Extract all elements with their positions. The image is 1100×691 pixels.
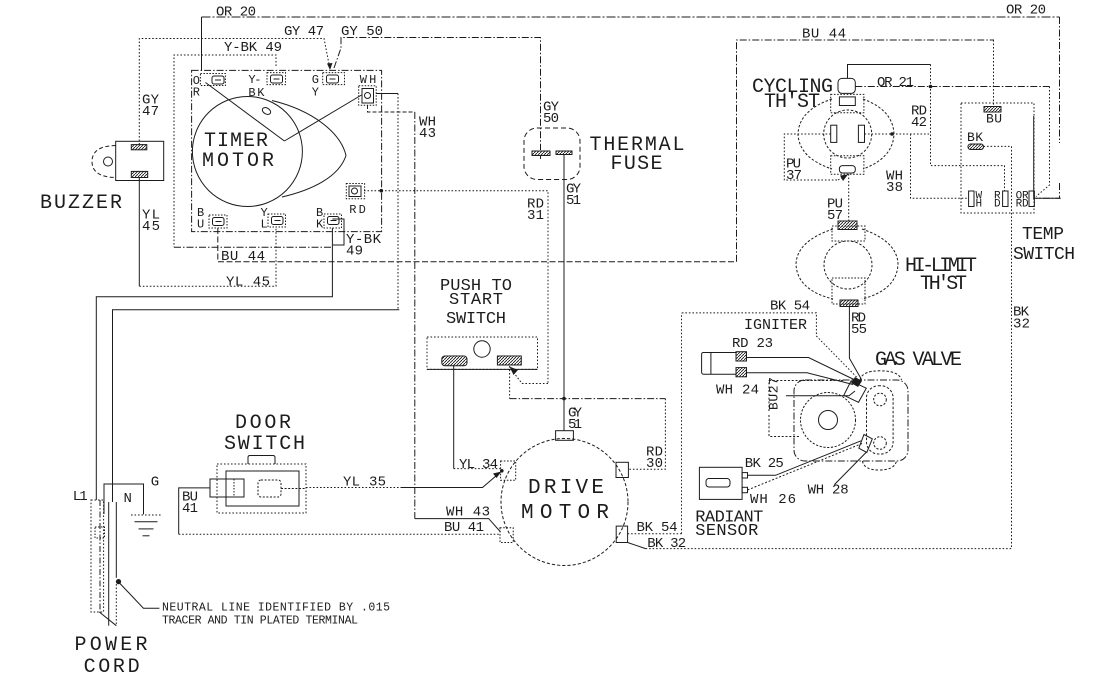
- gas valve bottom dome: [862, 461, 896, 470]
- hi-limit top collar: [832, 226, 865, 241]
- igniter plug: [702, 353, 736, 375]
- svg-text:L1: L1: [73, 489, 88, 505]
- radiant sensor pin BK25: [742, 473, 747, 478]
- svg-text:OR 20: OR 20: [1006, 3, 1046, 19]
- temp switch RD slot: [1003, 191, 1008, 207]
- svg-text:N: N: [124, 491, 132, 507]
- hi-limit body circle: [824, 241, 872, 289]
- svg-text:38: 38: [886, 180, 903, 196]
- buzzer body: [92, 141, 164, 180]
- svg-text:BU 41: BU 41: [444, 520, 484, 536]
- buzzer top terminal: [131, 145, 147, 150]
- svg-text:BK: BK: [248, 86, 265, 100]
- svg-text:BK 54: BK 54: [637, 520, 678, 536]
- svg-text:H: H: [976, 199, 983, 211]
- wire RD 31: [364, 189, 548, 384]
- timer cam follower bead: [261, 106, 272, 116]
- svg-text:WH 28: WH 28: [808, 483, 849, 499]
- svg-text:RD 23: RD 23: [732, 336, 773, 352]
- push to start switch box: [427, 337, 538, 369]
- svg-text:OR 20: OR 20: [216, 5, 256, 21]
- cycling thermostat right slot: [858, 125, 864, 142]
- timer motor circle: [192, 97, 302, 207]
- terminal timer Y-BK: [267, 73, 286, 85]
- timer wiper from WH: [284, 95, 361, 141]
- wire WH 26: [748, 444, 863, 491]
- cycling thermostat left petal: [798, 99, 832, 169]
- wire RD 42: [848, 65, 1005, 192]
- terminal timer YL: [268, 214, 286, 227]
- terminal timer BU: [209, 215, 227, 228]
- svg-text:WH 26: WH 26: [750, 492, 796, 508]
- timer wiper from OR: [206, 83, 285, 142]
- terminal timer RD: [346, 184, 364, 199]
- svg-text:41: 41: [182, 501, 198, 517]
- wire N to timer WH: [113, 310, 400, 502]
- svg-text:32: 32: [1013, 317, 1030, 333]
- push to start button: [474, 341, 490, 357]
- svg-text:BK 32: BK 32: [647, 536, 686, 552]
- svg-text:BU 44: BU 44: [802, 27, 846, 43]
- terminal timer BK: [324, 214, 342, 228]
- gas valve plate bottom hole: [874, 437, 887, 450]
- svg-text:Y-BK 49: Y-BK 49: [224, 40, 282, 56]
- cycling thermostat body circle: [824, 110, 872, 158]
- temp switch inner vertical: [1033, 116, 1035, 200]
- wire BK 25: [748, 441, 862, 476]
- svg-text:BK: BK: [967, 130, 983, 145]
- wire OR20 into OR-RD slot: [1034, 197, 1060, 199]
- wire GY 50: [334, 38, 541, 151]
- svg-text:Y-: Y-: [248, 73, 261, 87]
- wire WH 28: [834, 453, 866, 485]
- power cord L1 blade: [91, 500, 104, 612]
- gas valve outer body: [794, 380, 908, 461]
- wire BU 41: [179, 488, 499, 534]
- svg-text:L: L: [261, 218, 268, 232]
- door switch left plug: [210, 479, 244, 497]
- svg-text:K: K: [316, 218, 324, 232]
- svg-text:TH'ST: TH'ST: [764, 91, 820, 114]
- gas valve top dome: [860, 371, 902, 380]
- svg-text:GY 47: GY 47: [284, 24, 324, 40]
- wire BK 54 igniter run: [682, 313, 858, 379]
- gas valve upper coil terminal: [844, 381, 867, 402]
- motor right terminal RD30: [616, 462, 628, 477]
- svg-text:D: D: [994, 199, 1001, 211]
- svg-text:WH 24: WH 24: [716, 383, 759, 399]
- igniter pin WH24: [736, 368, 747, 377]
- wire BU 27 loop: [769, 381, 855, 437]
- note pointer line: [120, 583, 160, 608]
- tin plated terminal mark: [95, 527, 105, 538]
- cycling thermostat top cap: [838, 78, 855, 93]
- door switch outer box: [217, 464, 306, 513]
- svg-text:37: 37: [786, 168, 802, 184]
- push to start right contact: [497, 356, 521, 365]
- wire BK 32 vertical: [1011, 146, 1013, 548]
- hi-limit top cap: [838, 221, 857, 230]
- wire RD 23: [747, 358, 857, 381]
- svg-text:YL 35: YL 35: [343, 475, 386, 491]
- svg-text:TRACER AND TIN PLATED TERMINAL: TRACER AND TIN PLATED TERMINAL: [162, 615, 358, 628]
- svg-text:SENSOR: SENSOR: [695, 522, 758, 541]
- cycling thermostat bottom bar: [839, 166, 855, 173]
- gas valve junction blob: [851, 377, 862, 387]
- radiant sensor body: [699, 467, 742, 499]
- wire BK 32: [628, 543, 1012, 549]
- wire PU 37: [784, 134, 848, 181]
- svg-text:BU: BU: [986, 112, 1002, 127]
- svg-text:R: R: [193, 86, 200, 100]
- svg-text:MOTOR: MOTOR: [202, 150, 274, 173]
- temp switch BK terminal: [968, 144, 1012, 150]
- svg-text:BK 54: BK 54: [770, 299, 810, 315]
- power cord N blade: [99, 502, 116, 626]
- wire PU 57: [848, 174, 850, 222]
- drive motor circle: [501, 439, 628, 566]
- hi-limit right petal: [862, 229, 898, 299]
- wire BU 44: [218, 40, 994, 262]
- terminal timer OR: [200, 74, 225, 86]
- svg-text:50: 50: [543, 111, 559, 127]
- svg-text:49: 49: [346, 244, 363, 260]
- wire cycling right to WH38: [865, 132, 968, 198]
- svg-text:51: 51: [566, 193, 581, 209]
- svg-text:NEUTRAL LINE IDENTIFIED BY .01: NEUTRAL LINE IDENTIFIED BY .015: [162, 602, 390, 615]
- wire Y-BK 49 upper: [174, 55, 276, 247]
- terminal timer G-Y: [323, 73, 345, 85]
- cycling thermostat bottom collar: [831, 156, 864, 174]
- svg-text:IGNITER: IGNITER: [744, 317, 807, 334]
- radiant sensor pin WH26: [742, 487, 747, 492]
- wire L1 to timer BK: [96, 228, 332, 500]
- svg-text:30: 30: [646, 456, 663, 472]
- hi-limit bottom cap: [840, 300, 858, 307]
- svg-text:TEMP: TEMP: [1022, 225, 1064, 245]
- temp switch BU terminal: [984, 107, 1001, 113]
- svg-text:SWITCH: SWITCH: [1013, 245, 1075, 265]
- svg-text:YL 45: YL 45: [226, 275, 270, 291]
- cycling thermostat left slot: [831, 125, 837, 142]
- thermal fuse body: [524, 128, 580, 180]
- cycling thermostat top collar: [831, 94, 864, 112]
- wire Y-BK 49 lower run: [174, 219, 344, 247]
- svg-text:START: START: [449, 291, 503, 310]
- svg-text:43: 43: [419, 126, 436, 142]
- wire WH 43 into motor: [415, 519, 501, 532]
- svg-text:45: 45: [142, 219, 160, 235]
- timer cam lobe: [272, 101, 346, 198]
- gas valve coil circle: [801, 393, 856, 448]
- door switch top tab: [248, 456, 275, 465]
- hi-limit bottom collar: [832, 278, 865, 304]
- svg-text:BU 44: BU 44: [221, 249, 265, 265]
- push to start left contact: [442, 356, 467, 366]
- temp switch OR-RD slot: [1029, 191, 1034, 207]
- motor upper-left terminal YL: [500, 461, 516, 480]
- wire motor top bus RD30 GY51: [510, 397, 666, 469]
- cycling thermostat top bar: [839, 97, 855, 106]
- motor lower-left terminal: [500, 528, 513, 543]
- svg-text:YL 34: YL 34: [459, 457, 498, 473]
- gas valve right plate: [867, 386, 894, 454]
- wire OR 20 top: [202, 17, 1060, 198]
- motor lower-right terminal BK: [616, 526, 627, 542]
- svg-text:GY 50: GY 50: [341, 24, 383, 40]
- svg-text:FUSE: FUSE: [611, 153, 663, 176]
- door switch plunger: [258, 480, 281, 497]
- svg-text:31: 31: [527, 208, 544, 224]
- svg-text:Y: Y: [312, 86, 319, 100]
- svg-text:RD: RD: [1016, 199, 1029, 211]
- svg-text:WH 43: WH 43: [446, 505, 490, 521]
- wire GY 47: [139, 39, 332, 145]
- wire YL 45: [138, 178, 140, 287]
- gas valve coil inner circle: [819, 411, 838, 430]
- terminal timer WH: [359, 86, 377, 106]
- wire WH 43: [368, 105, 415, 519]
- temp switch WH slot: [969, 191, 974, 207]
- cycling thermostat right petal: [863, 99, 894, 169]
- svg-text:OR 21: OR 21: [877, 75, 914, 91]
- radiant sensor window: [706, 479, 730, 488]
- gas valve lower coil terminal: [859, 435, 873, 453]
- svg-text:BK 25: BK 25: [745, 456, 784, 472]
- door switch inner box: [226, 471, 299, 506]
- svg-text:DRIVE: DRIVE: [528, 477, 604, 500]
- ground symbol: [131, 515, 161, 536]
- wire WH 24: [747, 373, 854, 385]
- svg-text:55: 55: [851, 322, 867, 338]
- svg-text:POWER: POWER: [75, 634, 148, 657]
- temp switch box: [961, 103, 1034, 213]
- thermal fuse right terminal: [556, 151, 572, 155]
- svg-text:G: G: [151, 475, 159, 491]
- svg-text:42: 42: [911, 115, 927, 131]
- wire PTS right down to motor bus: [509, 366, 511, 399]
- wire WH short from terminal: [376, 93, 398, 95]
- neutral tracer dot: [116, 579, 121, 584]
- gas valve plate top hole: [874, 393, 887, 406]
- wire RD 55: [849, 307, 861, 380]
- motor top terminal: [556, 431, 574, 441]
- svg-text:GAS VALVE: GAS VALVE: [875, 349, 962, 372]
- wire YL 35: [306, 472, 502, 488]
- igniter pin RD23: [736, 352, 747, 361]
- svg-text:SWITCH: SWITCH: [446, 310, 506, 329]
- buzzer bottom terminal: [131, 171, 147, 177]
- wire BK 54: [628, 313, 682, 534]
- timer box: [192, 70, 382, 231]
- wire GY 51: [563, 155, 565, 431]
- svg-text:TH'ST: TH'ST: [920, 273, 967, 296]
- svg-text:U: U: [197, 218, 204, 232]
- wire OR 21: [855, 85, 1049, 197]
- hi-limit left petal: [796, 229, 833, 299]
- svg-text:BU27: BU27: [767, 377, 782, 410]
- svg-text:47: 47: [142, 104, 159, 120]
- thermal fuse left terminal: [532, 151, 550, 159]
- wire PTS left to motor YL34: [454, 366, 501, 469]
- power cord N housing: [104, 484, 144, 514]
